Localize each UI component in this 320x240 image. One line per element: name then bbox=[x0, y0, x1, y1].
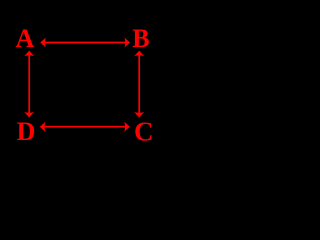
arrowhead at C bbox=[124, 122, 130, 132]
svg-text:B: B bbox=[132, 24, 149, 53]
wire A-B bbox=[44, 42, 126, 44]
wire B-C bbox=[138, 55, 140, 114]
arrow A-B (double-headed, top) bbox=[40, 38, 130, 48]
arrow D-C (double-headed, bottom) bbox=[40, 122, 130, 132]
arrow B-C (double-headed, right) bbox=[134, 51, 144, 118]
arrowhead at D bbox=[24, 112, 34, 118]
svg-text:D: D bbox=[17, 117, 36, 146]
arrowhead at B bbox=[134, 51, 144, 57]
wire D-C bbox=[44, 126, 126, 128]
arrowhead at D bbox=[40, 122, 46, 132]
arrowhead at C bbox=[134, 112, 144, 118]
arrowhead at B bbox=[125, 38, 131, 48]
svg-text:C: C bbox=[134, 117, 154, 147]
arrowhead at A bbox=[24, 51, 34, 57]
arrowhead at A bbox=[40, 38, 46, 48]
svg-text:A: A bbox=[16, 24, 35, 53]
arrow A-D (double-headed, left) bbox=[24, 51, 34, 118]
wire A-D bbox=[28, 55, 30, 114]
